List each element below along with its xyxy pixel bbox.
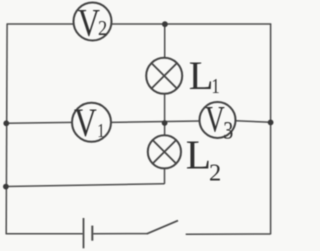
svg-text:1: 1 — [211, 75, 219, 98]
svg-text:V: V — [78, 1, 101, 44]
svg-text:3: 3 — [223, 116, 233, 144]
svg-text:L: L — [189, 53, 214, 98]
svg-text:V: V — [74, 101, 97, 145]
svg-text:2: 2 — [98, 18, 107, 40]
svg-text:1: 1 — [97, 119, 104, 142]
svg-text:L: L — [186, 132, 211, 178]
svg-text:2: 2 — [209, 160, 221, 187]
